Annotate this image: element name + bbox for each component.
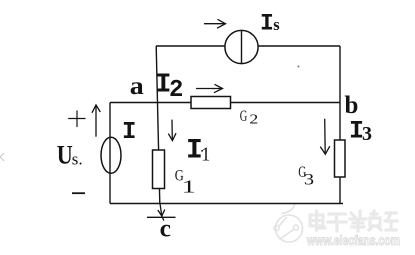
svg-text:2: 2 [169, 77, 183, 104]
svg-text:1: 1 [201, 144, 210, 166]
resistor G1 [153, 150, 165, 189]
svg-text:3: 3 [304, 171, 314, 188]
arrow for I2 [196, 84, 223, 92]
svg-text:I: I [260, 11, 274, 37]
watermark text 电子发烧友 (approximated strokes) [310, 211, 397, 231]
current source Is [225, 30, 258, 63]
svg-text:2: 2 [249, 113, 258, 128]
middle wire a-b [110, 102, 340, 104]
svg-text:G: G [240, 108, 248, 125]
bottom wire [110, 203, 343, 205]
node c overline [147, 216, 176, 218]
arrow for Is [204, 19, 226, 28]
svg-text:b: b [345, 92, 359, 119]
resistor G3 [335, 140, 346, 177]
faint scan dot near circle [298, 66, 300, 68]
faint scan mark at left edge [0, 153, 4, 161]
minus sign [72, 192, 85, 194]
left outer vertical wire [109, 103, 111, 204]
top wire [156, 45, 340, 47]
svg-text:www.elecfans.com: www.elecfans.com [306, 233, 400, 248]
arrow for I1 [168, 120, 176, 141]
node c stub and arrow [158, 204, 165, 221]
right vertical wire [339, 46, 341, 204]
svg-text:c: c [160, 214, 171, 243]
svg-text:s.: s. [72, 150, 83, 169]
watermark logo circle [274, 205, 303, 243]
svg-text:I: I [122, 119, 136, 146]
svg-text:1: 1 [182, 176, 196, 196]
stray scan dot near I1 [201, 150, 203, 152]
voltage source Us ellipse [101, 137, 121, 173]
resistor G2 [191, 97, 231, 109]
svg-text:a: a [130, 73, 145, 100]
svg-text:U: U [57, 141, 73, 170]
svg-text:s: s [273, 15, 280, 34]
svg-text:3: 3 [362, 123, 372, 145]
arrow for I (up) [92, 105, 100, 137]
arrow for I3 [320, 119, 330, 154]
left inner vertical wire (node a branch) [156, 46, 160, 204]
plus sign [68, 110, 85, 127]
